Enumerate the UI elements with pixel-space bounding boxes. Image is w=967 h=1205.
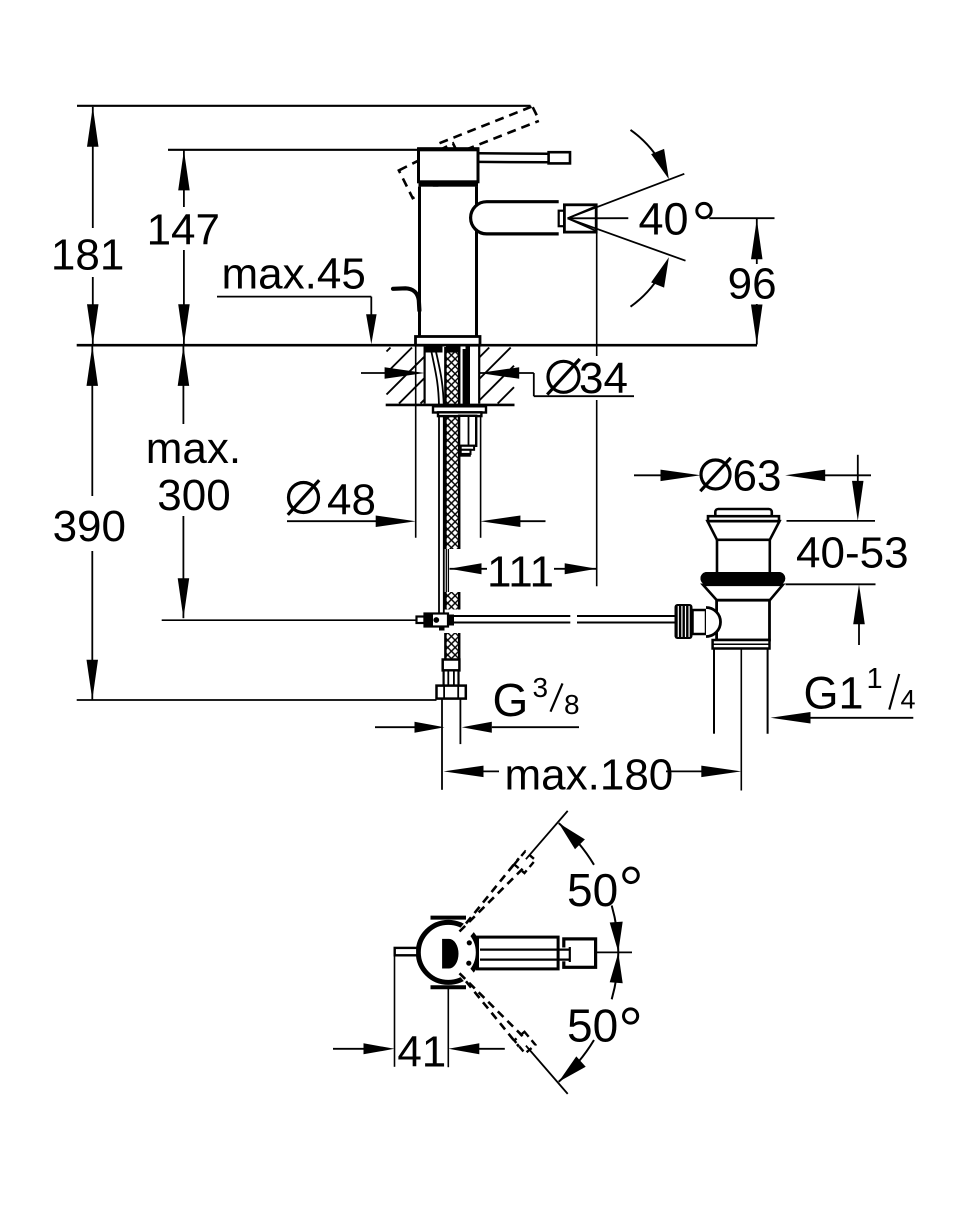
top view lever shaft bbox=[478, 937, 559, 969]
hose end fitting bbox=[444, 670, 459, 685]
countertop hatching right of hole bbox=[479, 348, 489, 358]
aerator bbox=[564, 205, 596, 232]
drain valve knob stem bbox=[693, 610, 707, 634]
svg-text:4: 4 bbox=[901, 685, 916, 715]
max.45 leader line + arrow bbox=[217, 296, 371, 298]
drain valve body bbox=[717, 600, 770, 640]
drain valve collar bbox=[713, 640, 770, 649]
spray fan lines (40° spread) bbox=[568, 206, 597, 218]
drain valve neck bbox=[716, 540, 719, 573]
top view flats bbox=[431, 916, 467, 920]
bottom reference line bbox=[77, 699, 437, 701]
dashed raised handle lever lines bbox=[440, 107, 532, 144]
svg-text:34: 34 bbox=[579, 354, 628, 403]
svg-text:390: 390 bbox=[53, 502, 126, 551]
dimension 40-53 bbox=[857, 455, 859, 492]
drain pipe center line bbox=[740, 649, 742, 791]
dimension max.300 (vertical line + arrows) bbox=[182, 346, 184, 424]
svg-text:3: 3 bbox=[533, 672, 549, 703]
top view faucet body circle bbox=[418, 922, 478, 982]
lower 50° arc arrows bbox=[559, 1040, 594, 1082]
svg-text:50: 50 bbox=[567, 999, 618, 1051]
pop-up rod knob on body bbox=[393, 288, 419, 310]
label Ø34 bbox=[548, 361, 579, 392]
top view dashed handle +50° (up) bbox=[466, 858, 519, 923]
inlet stub in hole bbox=[463, 349, 470, 405]
svg-text:40: 40 bbox=[639, 193, 689, 244]
countertop underside line bbox=[386, 404, 515, 407]
spout bbox=[471, 202, 559, 234]
countertop surface line bbox=[77, 344, 757, 347]
svg-text:40-53: 40-53 bbox=[796, 529, 909, 578]
dimension max.180 bbox=[444, 766, 484, 778]
ring notches for dashed handles bbox=[462, 922, 474, 936]
svg-text:max.45: max.45 bbox=[222, 250, 366, 299]
dimension 147 (vertical line + arrows) bbox=[183, 150, 185, 207]
drain pipe bbox=[713, 649, 715, 734]
svg-text:63: 63 bbox=[733, 451, 782, 500]
hose ferrule bbox=[443, 660, 460, 671]
svg-text:181: 181 bbox=[51, 231, 124, 280]
svg-text:max.180: max.180 bbox=[505, 751, 674, 800]
Ø63 dimension bbox=[634, 474, 671, 476]
50° ray down bbox=[526, 1046, 568, 1094]
reference line faucet top (181) bbox=[77, 105, 531, 107]
top view dashed handle -50° (down) bbox=[466, 981, 519, 1046]
svg-text:48: 48 bbox=[327, 476, 376, 525]
dimension 111 bbox=[450, 563, 482, 574]
pop-up rod vertical lines bbox=[438, 416, 440, 613]
top view pop-up rod stub bbox=[395, 948, 418, 955]
faucet body bbox=[420, 187, 477, 337]
svg-text:111: 111 bbox=[487, 547, 554, 596]
40° swivel arc arrows bbox=[631, 130, 664, 168]
drain valve seal ring bbox=[701, 572, 786, 585]
drain valve plug cap bbox=[715, 509, 772, 517]
svg-text:G: G bbox=[493, 674, 529, 726]
dimension 96 bbox=[756, 218, 758, 264]
svg-text:1: 1 bbox=[867, 663, 883, 695]
pop-up rod guide curve bbox=[431, 350, 439, 407]
top view lever rod bbox=[561, 948, 569, 962]
dimension 41 bbox=[394, 956, 396, 1067]
max.300 reference line bbox=[162, 619, 417, 621]
dashed raised handle head outline bbox=[399, 143, 467, 198]
top view cartridge (D shape) bbox=[442, 939, 458, 969]
top view screw dots bbox=[467, 940, 472, 945]
base escutcheon bbox=[416, 337, 481, 346]
Ø48 dimension bbox=[287, 520, 386, 522]
drain valve flange bbox=[703, 585, 783, 600]
svg-text:G1: G1 bbox=[804, 668, 864, 719]
G1 1/4 dimension bbox=[771, 712, 811, 724]
flexible hose lower segment bbox=[445, 633, 459, 660]
G3/8 nut bbox=[437, 686, 466, 699]
svg-text:96: 96 bbox=[728, 260, 777, 309]
label Ø48 bbox=[289, 483, 319, 513]
reference line handle height (147) bbox=[168, 149, 418, 151]
faucet lever (horizontal position) bbox=[478, 152, 549, 155]
dimension 181 (vertical line + arrows) bbox=[92, 107, 94, 228]
drain valve funnel bbox=[708, 521, 780, 540]
G3/8 pipe bbox=[441, 699, 443, 790]
under-base fixing bar bbox=[425, 347, 470, 353]
top view lever grip bbox=[564, 939, 596, 967]
washer under counter bbox=[433, 406, 486, 412]
hose break thin lines bbox=[445, 549, 447, 592]
svg-text:147: 147 bbox=[147, 206, 220, 255]
aerator neck bbox=[559, 211, 565, 227]
Ø34 dimension leader bbox=[361, 372, 395, 374]
svg-text:8: 8 bbox=[564, 689, 580, 720]
countertop hatching left of hole bbox=[387, 348, 391, 352]
horizontal pop-up rod bbox=[454, 615, 570, 617]
drain valve bulge bbox=[706, 608, 721, 637]
flexible hose upper segment bbox=[445, 347, 459, 549]
upper 50° arc arrows bbox=[559, 823, 594, 865]
label Ø63 bbox=[701, 460, 730, 489]
inlet stub under counter bbox=[459, 416, 476, 446]
dimension 390 (vertical line + arrows) bbox=[91, 346, 93, 496]
pop-up rod clevis junction bbox=[417, 617, 425, 624]
svg-text:50: 50 bbox=[567, 864, 618, 916]
drain valve knurled knob bbox=[675, 604, 693, 639]
svg-text:max.: max. bbox=[146, 424, 241, 473]
svg-text:41: 41 bbox=[397, 1027, 446, 1076]
top view center line bbox=[596, 951, 632, 953]
aerator extension line bbox=[596, 232, 598, 356]
G3/8 dimension bbox=[375, 726, 415, 728]
faucet head cap bbox=[419, 149, 479, 182]
flexible hose middle segment bbox=[445, 592, 459, 610]
mounting hole walls bbox=[424, 347, 426, 404]
50° ray up bbox=[526, 811, 568, 859]
svg-text:300: 300 bbox=[157, 471, 230, 520]
